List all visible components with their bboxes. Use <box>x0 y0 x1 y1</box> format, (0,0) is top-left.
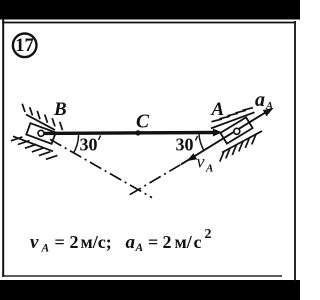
svg-text:17: 17 <box>15 36 34 56</box>
svg-text:=: = <box>148 232 158 252</box>
svg-text:C: C <box>136 112 150 133</box>
svg-text:A: A <box>41 243 50 255</box>
svg-text:2: 2 <box>163 232 172 252</box>
svg-text:с: с <box>194 232 202 252</box>
svg-text:A: A <box>265 101 273 112</box>
svg-text:=: = <box>55 232 65 252</box>
svg-text:a: a <box>255 89 265 111</box>
svg-text:B: B <box>53 99 67 120</box>
svg-text:2: 2 <box>70 232 79 252</box>
svg-text:v: v <box>30 232 39 253</box>
svg-text:A: A <box>135 242 144 254</box>
svg-text:30: 30 <box>176 135 194 155</box>
svg-text:a: a <box>126 232 136 253</box>
svg-text:v: v <box>197 152 205 172</box>
svg-text:2: 2 <box>205 227 212 242</box>
svg-text:A: A <box>205 163 213 175</box>
svg-text:A: A <box>211 99 225 120</box>
svg-text:м/с;: м/с; <box>81 232 112 252</box>
svg-text:30: 30 <box>80 135 98 155</box>
svg-text:м/: м/ <box>175 232 193 252</box>
